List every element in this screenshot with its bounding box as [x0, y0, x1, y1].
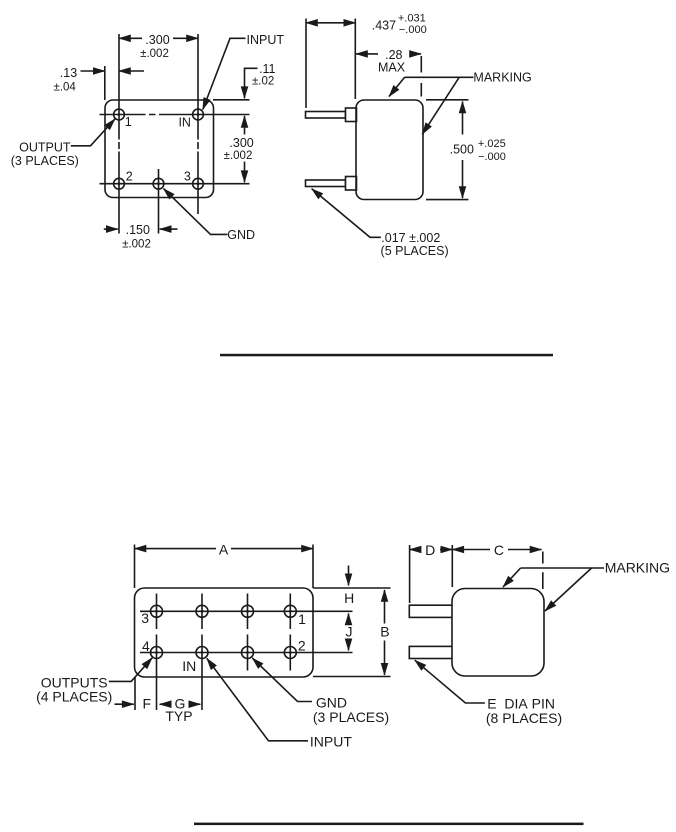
- wire body bottom edge extension: [426, 199, 469, 201]
- leader INPUT: [203, 38, 246, 109]
- wire col2 row1 centerline: [201, 594, 203, 630]
- svg-text:J: J: [346, 624, 353, 640]
- horizontal rule bottom: [194, 823, 584, 826]
- pin IN: [193, 109, 204, 120]
- svg-text:(8 PLACES): (8 PLACES): [486, 710, 562, 726]
- wire dashed corner extension: [420, 56, 422, 97]
- pin 1 (fig3 row1 col4): [284, 605, 296, 617]
- svg-text:(4 PLACES): (4 PLACES): [36, 689, 112, 705]
- dimension C: [452, 549, 490, 551]
- lead 1 pin (thin): [306, 112, 346, 119]
- package body (side view): [356, 100, 423, 200]
- pin GND row2 col3: [242, 647, 254, 659]
- wire row2: [100, 183, 250, 185]
- wire row1 left stub: [100, 114, 125, 116]
- dimension A: [135, 548, 217, 550]
- svg-text:GND: GND: [227, 228, 255, 242]
- svg-text:(3 PLACES): (3 PLACES): [11, 154, 79, 168]
- svg-text:A: A: [219, 542, 229, 558]
- svg-text:H: H: [344, 590, 354, 606]
- svg-text:±.002: ±.002: [122, 239, 151, 251]
- dimension .500 vertical: [462, 102, 464, 135]
- leader .017 pin dia: [312, 189, 381, 238]
- wire pin1-pin2 dash-dot centerline: [118, 120, 120, 178]
- svg-text:1: 1: [125, 115, 132, 129]
- wire row1 center dash-dot: [125, 114, 193, 116]
- wire row2 line: [140, 652, 353, 654]
- lead 1 (fig4): [409, 605, 452, 617]
- wire package left edge lower extension: [134, 677, 136, 710]
- wire pin3 column lower extension: [197, 178, 199, 215]
- dimension B arrows: [384, 590, 386, 624]
- wire col4 row1 centerline: [289, 594, 291, 630]
- svg-text:+.031: +.031: [398, 13, 426, 25]
- wire pin1 column upper extension: [118, 34, 120, 120]
- wire col4 row2 centerline: [289, 635, 291, 671]
- svg-text:±.002: ±.002: [140, 48, 169, 60]
- wire IN-pin3 dash-dot centerline: [197, 120, 199, 178]
- wire body left edge extension line: [354, 19, 356, 100]
- wire body left edge extension (fig4): [451, 545, 453, 587]
- wire col1 row1 centerline: [156, 594, 158, 630]
- dimension .437: [306, 22, 355, 24]
- svg-text:−.000: −.000: [478, 151, 506, 163]
- leader E DIA PIN: [415, 660, 485, 703]
- lead 2 bushing: [346, 177, 357, 191]
- svg-text:.437: .437: [372, 19, 396, 33]
- wire row1 line: [140, 610, 353, 612]
- dimension H arrow: [348, 566, 350, 586]
- wire col3 row2 centerline: [247, 635, 249, 671]
- svg-text:OUTPUT: OUTPUT: [19, 141, 71, 155]
- svg-text:1: 1: [298, 611, 306, 627]
- package body outline (8-pin): [135, 588, 314, 677]
- dimension F arrow: [115, 703, 134, 705]
- svg-text:.300: .300: [145, 33, 169, 47]
- wire package top edge right extension: [313, 587, 391, 589]
- wire lead tip extension (fig4): [409, 545, 411, 603]
- svg-text:F: F: [143, 695, 152, 711]
- leader OUTPUT: [71, 119, 115, 146]
- package body (fig4 side view): [452, 589, 544, 677]
- svg-text:4: 4: [142, 638, 150, 654]
- dimension .11 leader: [245, 68, 258, 98]
- svg-text:(5 PLACES): (5 PLACES): [381, 244, 449, 258]
- wire package bottom edge right extension: [313, 676, 391, 678]
- svg-text:±.02: ±.02: [252, 76, 274, 88]
- svg-text:IN: IN: [182, 658, 196, 674]
- dimension J arrows: [348, 614, 350, 625]
- svg-text:±.04: ±.04: [54, 82, 77, 94]
- dimension .28 MAX: [356, 53, 378, 55]
- svg-text:3: 3: [184, 170, 191, 184]
- lead 1 bushing: [346, 108, 357, 122]
- package body outline (top view, 5-pin): [105, 100, 214, 198]
- dimension G arrows: [160, 703, 171, 705]
- leader GND: [164, 189, 228, 235]
- wire col2 row2 centerline extended: [201, 635, 203, 711]
- svg-text:2: 2: [298, 638, 306, 654]
- svg-text:−.000: −.000: [399, 24, 427, 36]
- dimension .13 left: [81, 70, 105, 72]
- wire GND column: [158, 169, 160, 234]
- svg-text:.300: .300: [229, 136, 253, 150]
- pin 3 (fig3 row1 col1): [151, 605, 163, 617]
- svg-text:MARKING: MARKING: [473, 71, 531, 85]
- dimension .300 vertical right: [244, 116, 246, 135]
- pin row1 col3: [242, 605, 254, 617]
- pin 3: [193, 178, 204, 189]
- svg-text:.13: .13: [60, 66, 77, 80]
- pin 1: [114, 109, 125, 120]
- svg-text:D: D: [425, 542, 435, 558]
- wire dashed corner extension (fig4): [542, 552, 544, 590]
- svg-text:3: 3: [141, 610, 149, 626]
- svg-text:±.002: ±.002: [224, 150, 253, 162]
- pin 4 (fig3 row2 col1): [151, 647, 163, 659]
- wire body top edge extension: [426, 99, 469, 101]
- svg-text:MAX: MAX: [378, 61, 406, 75]
- pin 2: [114, 178, 125, 189]
- leader OUTPUTS: [109, 658, 152, 682]
- pin 2 (fig3 row2 col4): [284, 647, 296, 659]
- svg-text:2: 2: [126, 170, 133, 184]
- leader GND (fig3): [252, 658, 312, 702]
- svg-text:INPUT: INPUT: [310, 734, 352, 750]
- wire lead tip extension line: [305, 19, 307, 109]
- dimension A extension lines: [134, 545, 136, 589]
- wire IN column upper extension: [197, 34, 199, 120]
- dimension .300 horizontal top: [119, 37, 142, 39]
- svg-text:.11: .11: [259, 62, 275, 76]
- wire col3 row1 centerline: [247, 594, 249, 630]
- leader INPUT (fig3): [207, 658, 308, 741]
- svg-text:C: C: [494, 542, 504, 558]
- wire col1 row2 centerline extended: [156, 635, 158, 711]
- svg-text:TYP: TYP: [165, 708, 192, 724]
- dimension .150 bottom: [104, 228, 118, 230]
- svg-text:MARKING: MARKING: [605, 560, 670, 576]
- wire row1 right segment: [193, 114, 250, 116]
- leader MARKING (fig4): [521, 567, 604, 569]
- lead 2 (fig4): [409, 646, 452, 658]
- svg-text:(3 PLACES): (3 PLACES): [313, 709, 389, 725]
- wire pin2 column lower extension: [118, 178, 120, 234]
- lead 2 pin (thin): [306, 180, 346, 187]
- svg-text:IN: IN: [178, 116, 191, 130]
- svg-text:+.025: +.025: [478, 138, 506, 150]
- pin row1 col2: [196, 605, 208, 617]
- pin IN (fig3 row2 col2): [196, 647, 208, 659]
- svg-text:.150: .150: [126, 223, 150, 237]
- dimension D: [410, 549, 421, 551]
- wire package left edge extension: [104, 66, 106, 100]
- svg-text:INPUT: INPUT: [247, 33, 285, 47]
- wire package top edge right extension: [213, 99, 250, 101]
- horizontal rule mid: [220, 354, 553, 357]
- svg-text:.500: .500: [450, 143, 474, 157]
- svg-text:B: B: [380, 623, 389, 639]
- leader MARKING: [405, 76, 474, 78]
- pin GND center: [153, 178, 164, 189]
